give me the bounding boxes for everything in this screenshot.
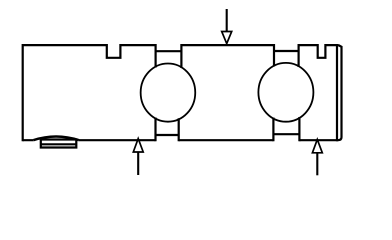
body bottom edge (right segment) [299,139,338,141]
top slot walls above hole 2 [274,44,299,67]
reaction arrow up (bottom right) shaft [316,153,318,176]
load arrow down (top center) shaft [226,9,228,32]
right end outer cap edge [338,45,342,140]
top slot walls above hole 1 [156,44,182,68]
load arrow down head [222,32,232,44]
reaction arrow up (bottom right) head [312,139,322,152]
bottom web line below hole 2 [273,133,299,135]
body top edge with mounting notch (left segment) [23,45,156,141]
load button plate bottom-left [41,140,77,148]
right end inner edge [336,44,338,141]
bottom slot walls below hole 2 [273,117,299,141]
body top edge (middle segment between slots) [181,44,274,46]
load button arc [33,137,79,141]
bottom web line below hole 1 [156,134,179,136]
body bottom edge (middle segment between webs) [179,139,274,141]
hole 1 (left circle) [141,64,196,122]
top web line above hole 2 [274,50,299,52]
reaction arrow up (bottom left) shaft [137,152,139,175]
hole 2 (right circle) [258,63,313,122]
reaction arrow up (bottom left) head [133,139,143,152]
top web line above hole 1 [156,50,182,52]
body top edge with mounting notch (right segment) [299,45,339,58]
load button plate inner line [41,143,77,145]
body bottom edge left with load-button arc [23,139,156,141]
bottom slot walls below hole 1 [156,118,179,142]
